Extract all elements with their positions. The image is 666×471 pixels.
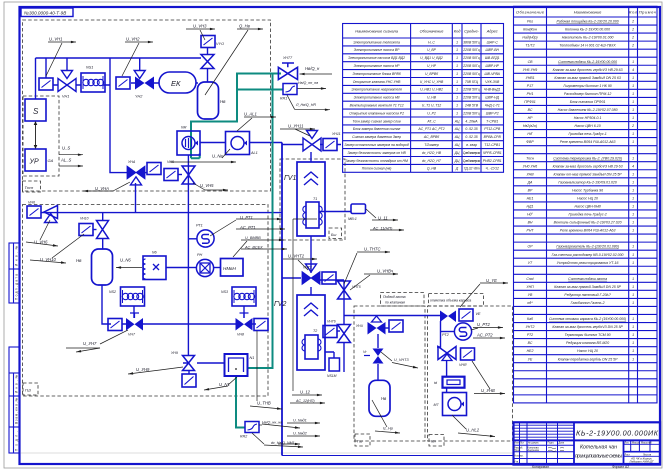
label U_RT2 bbox=[471, 328, 503, 331]
svg-text:НЕ1: НЕ1 bbox=[527, 197, 534, 201]
svg-text:1: 1 bbox=[456, 111, 458, 115]
svg-text:Насос ЦВН 6-10: Насос ЦВН 6-10 bbox=[574, 124, 600, 128]
svg-text:1: 1 bbox=[456, 88, 458, 92]
svg-text:1: 1 bbox=[632, 76, 634, 80]
label AC_RT1 bbox=[236, 228, 285, 230]
svg-text:1: 1 bbox=[632, 277, 634, 281]
svg-text:Котельная чан: Котельная чан bbox=[580, 445, 617, 451]
wire RN1 tap bbox=[188, 267, 196, 269]
svg-text:Газобаллон Газель-2: Газобаллон Газель-2 bbox=[571, 301, 605, 305]
svg-text:Насос НР504-0.1: Насос НР504-0.1 bbox=[574, 116, 602, 120]
svg-text:VYO: VYO bbox=[216, 42, 224, 46]
wire VHR-td-M7 stack bbox=[446, 360, 448, 393]
svg-text:Лист: Лист bbox=[625, 453, 631, 456]
svg-text:Насос ЦВН-6НВ: Насос ЦВН-6НВ bbox=[574, 205, 601, 209]
svg-text:ГШ: ГШ bbox=[25, 388, 31, 393]
svg-text:380В 50Гц: 380В 50Гц bbox=[463, 40, 479, 44]
svg-text:1: 1 bbox=[632, 197, 634, 201]
svg-text:1: 1 bbox=[632, 140, 634, 144]
svg-text:Q_НВ: Q_НВ bbox=[427, 167, 437, 171]
instrument VH1-pilot bbox=[39, 78, 53, 90]
svg-text:U_N1: U_N1 bbox=[219, 382, 230, 387]
svg-text:Подп.: Подп. bbox=[548, 442, 555, 445]
svg-text:1: 1 bbox=[632, 205, 634, 209]
wire YHA to instr bbox=[144, 172, 147, 174]
svg-text:Электропитание насоса НР: Электропитание насоса НР bbox=[354, 64, 401, 68]
svg-text:AC_РТ2: AC_РТ2 bbox=[476, 333, 493, 338]
svg-text:Тосн: Тосн bbox=[526, 156, 534, 160]
svg-text:СВ: СВ bbox=[528, 60, 534, 64]
unit RR2 bbox=[245, 422, 259, 433]
svg-text:МВ:1: МВ:1 bbox=[348, 217, 357, 221]
svg-text:РТ1: РТ1 bbox=[196, 224, 203, 228]
svg-text:1: 1 bbox=[632, 60, 634, 64]
svg-text:Клапан передатка гербоЬ DN 25: Клапан передатка гербоЬ DN 25 5Р bbox=[558, 357, 618, 361]
label U_NM1 bbox=[278, 443, 300, 445]
label N_H2Q bbox=[287, 95, 330, 110]
label AC_VSEH bbox=[241, 248, 287, 250]
label U_YH9 bbox=[128, 367, 183, 374]
svg-text:УН6 УН9: УН6 УН9 bbox=[523, 68, 537, 72]
svg-text:УНВ: УНВ bbox=[526, 172, 534, 176]
svg-text:U_VH1: U_VH1 bbox=[49, 37, 63, 42]
valve YH11 bbox=[303, 131, 321, 152]
teal pipe main H2 line bbox=[191, 74, 281, 159]
svg-text:Редуктор пятновый Г-20Ь?: Редуктор пятновый Г-20Ь? bbox=[564, 293, 610, 297]
svg-text:VH10: VH10 bbox=[80, 217, 89, 221]
svg-text:1: 1 bbox=[632, 188, 634, 192]
valve VH10 bbox=[79, 224, 93, 236]
svg-text:Сигнал замера давления Змер: Сигнал замера давления Змер bbox=[352, 135, 401, 139]
sensor RN1 bbox=[196, 259, 213, 276]
svg-text:Реле времени ВЛ64 РШ-А012-А63: Реле времени ВЛ64 РШ-А012-А63 bbox=[560, 229, 616, 233]
svg-text:Электропитание блока ВРВб: Электропитание блока ВРВб bbox=[353, 72, 401, 76]
label U_11 bbox=[366, 209, 398, 220]
teal pipe N1 to RR2 bbox=[236, 377, 245, 428]
label U_YHV bbox=[472, 361, 505, 394]
svg-text:U_VH5: U_VH5 bbox=[200, 183, 214, 188]
svg-text:VH1: VH1 bbox=[62, 95, 69, 99]
signal table bbox=[343, 24, 504, 173]
label U_YH11 bbox=[280, 129, 315, 136]
svg-text:ЕК: ЕК bbox=[171, 79, 181, 88]
svg-text:NS1: NS1 bbox=[86, 66, 93, 70]
svg-text:1: 1 bbox=[632, 357, 634, 361]
svg-text:АЦ: АЦ bbox=[454, 135, 460, 139]
svg-text:N6: N6 bbox=[152, 251, 157, 255]
svg-text:Андреева: Андреева bbox=[528, 449, 540, 452]
svg-text:принципиальные схемы: принципиальные схемы bbox=[575, 454, 622, 460]
dashed enclosure N2-supply bbox=[354, 306, 425, 441]
svg-text:U_ВМВВ: U_ВМВВ bbox=[245, 236, 261, 240]
svg-text:Электропитание насоса НВ: Электропитание насоса НВ bbox=[354, 96, 401, 100]
svg-text:РТ12-СРВ: РТ12-СРВ bbox=[484, 127, 501, 131]
svg-text:1: 1 bbox=[632, 100, 634, 104]
label U_VH3 bbox=[186, 29, 215, 40]
svg-text:AC_РТ1: AC_РТ1 bbox=[239, 225, 256, 230]
dashed enclosure vacuum frame bbox=[428, 306, 513, 441]
heater td bbox=[443, 377, 465, 388]
svg-text:Изм.: Изм. bbox=[514, 442, 520, 445]
svg-text:dc_Н2О_НТ: dc_Н2О_НТ bbox=[422, 159, 442, 163]
svg-text:220В 50Гц: 220В 50Гц bbox=[462, 48, 479, 52]
svg-text:U_VH10: U_VH10 bbox=[40, 257, 56, 262]
svg-text:U_Nв: U_Nв bbox=[212, 154, 223, 159]
equipment table bbox=[514, 6, 658, 403]
svg-text:ВН: ВН bbox=[528, 221, 533, 225]
svg-text:РН: РН bbox=[197, 253, 203, 257]
svg-text:1: 1 bbox=[632, 229, 634, 233]
svg-text:1: 1 bbox=[632, 333, 634, 337]
dashed tag GSh2 bbox=[355, 434, 370, 446]
svg-text:4: 4 bbox=[632, 164, 634, 168]
svg-text:Рег: Рег bbox=[527, 20, 533, 24]
svg-text:1: 1 bbox=[632, 325, 634, 329]
svg-text:ОР: ОР bbox=[527, 245, 533, 249]
wire NS3 drop bbox=[188, 306, 256, 324]
svg-text:№300.0000-40-Т-9В: №300.0000-40-Т-9В bbox=[24, 11, 66, 16]
wire VHT6 square link bbox=[337, 330, 340, 332]
svg-text:Т/2замер: Т/2замер bbox=[424, 143, 439, 147]
svg-text:7Д.32 ʶВт: 7Д.32 ʶВт bbox=[463, 167, 479, 171]
svg-text:AC_ВРВб: AC_ВРВб bbox=[423, 135, 439, 139]
label U_VHT2 bbox=[283, 259, 317, 270]
valve VH7 bbox=[108, 319, 122, 331]
svg-text:U_N6: U_N6 bbox=[120, 258, 131, 263]
svg-text:VH7: VH7 bbox=[128, 333, 136, 337]
instrument YHA-pilot bbox=[147, 163, 161, 175]
svg-text:220В 50Гц: 220В 50Гц bbox=[462, 64, 479, 68]
svg-text:Теплообмен 14 Н 001 02 4Ш-ТВХХ: Теплообмен 14 Н 001 02 4Ш-ТВХХ bbox=[559, 44, 616, 48]
svg-text:2: 2 bbox=[631, 36, 634, 40]
unit HM2N bbox=[221, 259, 244, 277]
wire YHU square link bbox=[385, 327, 389, 329]
svg-text:VH6: VH6 bbox=[28, 201, 35, 205]
wire RN1 to HM2N bbox=[213, 267, 221, 269]
valve VHT6 bbox=[338, 325, 351, 343]
svg-text:НД1: НД1 bbox=[527, 205, 534, 209]
svg-text:Термопары быточн ТСМ 90: Термопары быточн ТСМ 90 bbox=[565, 333, 611, 337]
svg-text:Рабочая площадка КЬ-2-19У20.20: Рабочая площадка КЬ-2-19У20.20.000 bbox=[556, 20, 618, 24]
svg-text:U_УНС U_УНВ: U_УНС U_УНВ bbox=[420, 80, 444, 84]
svg-text:1: 1 bbox=[456, 72, 458, 76]
svg-text:Утв.: Утв. bbox=[514, 461, 519, 464]
label H2Q_nn bbox=[298, 88, 327, 90]
pump NR bbox=[177, 131, 200, 155]
svg-text:Сна!: Сна! bbox=[526, 277, 533, 281]
wire YHA drop bbox=[135, 183, 137, 213]
label U_YH7 bbox=[66, 330, 128, 352]
svg-text:Редукция клапана ВЛ-М20: Редукция клапана ВЛ-М20 bbox=[566, 341, 609, 345]
svg-text:U_УН7: U_УН7 bbox=[83, 341, 97, 346]
svg-text:Подвод азота: Подвод азота bbox=[383, 295, 406, 299]
wire cross line to vacuum box bbox=[344, 315, 440, 317]
svg-text:1: 1 bbox=[632, 84, 634, 88]
svg-text:Гш: Гш bbox=[357, 439, 363, 444]
svg-text:Над(Ндр): Над(Ндр) bbox=[522, 36, 537, 40]
svg-text:Ндʹ: Ндʹ bbox=[527, 132, 532, 136]
svg-text:Нв2(в2о): Нв2(в2о) bbox=[523, 124, 537, 128]
svg-text:Клапан за-маг прямой ЗамдЬИ DN: Клапан за-маг прямой ЗамдЬИ DN 25 5Р bbox=[554, 285, 621, 289]
label Q_Hb bbox=[205, 29, 263, 95]
svg-text:ШВР-ВН: ШВР-ВН bbox=[485, 48, 499, 52]
svg-text:1: 1 bbox=[632, 156, 634, 160]
svg-text:Кол: Кол bbox=[629, 10, 638, 15]
instrument VHT2-pilot bbox=[322, 272, 336, 284]
valve VHT5 bbox=[338, 281, 351, 299]
svg-text:U_YE: U_YE bbox=[486, 278, 497, 283]
svg-text:Клапан за-маг дроссель гербоVЗ: Клапан за-маг дроссель гербоVЗ НВ 29 63 bbox=[553, 164, 623, 168]
wire YH9 drop to instr bbox=[188, 371, 190, 374]
svg-text:Вентиль сильфонный КЬ-2-19У03.: Вентиль сильфонный КЬ-2-19У03.27.020 bbox=[554, 221, 622, 225]
svg-text:ВР: ВР bbox=[528, 188, 533, 192]
sensor RT1 bbox=[197, 230, 214, 247]
svg-text:AC_11(НП): AC_11(НП) bbox=[372, 227, 393, 231]
svg-text:U_VHТ3: U_VHТ3 bbox=[394, 358, 409, 362]
svg-text:1: 1 bbox=[632, 317, 634, 321]
svg-text:Нв: Нв bbox=[220, 99, 226, 104]
svg-text:U_S: U_S bbox=[62, 146, 70, 151]
label U_VM2V bbox=[233, 240, 284, 257]
solenoid N6 bbox=[143, 256, 166, 280]
svg-text:U_ВД1 U_ВД2: U_ВД1 U_ВД2 bbox=[420, 56, 443, 60]
label U_VHVch bbox=[350, 274, 398, 290]
svg-text:РН1: РН1 bbox=[527, 92, 534, 96]
svg-text:ШВ-ЧРВА: ШВ-ЧРВА bbox=[484, 72, 500, 76]
sensor RT2 bbox=[454, 323, 471, 340]
svg-text:Кл: Кл bbox=[431, 439, 436, 444]
svg-text:1: 1 bbox=[632, 285, 634, 289]
svg-text:GA: GA bbox=[48, 158, 54, 163]
svg-text:70В 5ГЦ: 70В 5ГЦ bbox=[465, 80, 479, 84]
wire NS14 link bbox=[325, 352, 334, 358]
svg-text:Замер безопасности замеров он: Замер безопасности замеров он НВ bbox=[347, 151, 406, 155]
svg-text:Обозначение: Обозначение bbox=[516, 10, 545, 15]
label U_VHA bbox=[83, 182, 130, 191]
svg-text:1: 1 bbox=[632, 213, 634, 217]
svg-text:220В 50Гц: 220В 50Гц bbox=[462, 88, 479, 92]
svg-text:Наименование сигнала: Наименование сигнала bbox=[355, 29, 398, 34]
teal pipe long vertical bbox=[248, 74, 273, 369]
svg-text:Насос НЦ 20: Насос НЦ 20 bbox=[577, 197, 598, 201]
svg-text:AC_РТ1 AC_РТ2: AC_РТ1 AC_РТ2 bbox=[417, 127, 444, 131]
svg-text:ШВР-Р2: ШВР-Р2 bbox=[486, 111, 499, 115]
svg-text:1: 1 bbox=[632, 341, 634, 345]
label U_VH10 bbox=[30, 234, 84, 263]
svg-text:Насос Турбанка 96: Насос Турбанка 96 bbox=[572, 188, 603, 192]
svg-text:24В 5ГВ: 24В 5ГВ bbox=[464, 104, 479, 108]
svg-text:АТ_С: АТ_С bbox=[426, 119, 436, 123]
dashed enclosure V1 bbox=[280, 159, 345, 240]
svg-text:Насос давлением КЬ-2-19У02.07.: Насос давлением КЬ-2-19У02.07.080 bbox=[558, 108, 618, 112]
svg-text:Система подачи азота: Система подачи азота bbox=[568, 277, 607, 281]
label AC_11 bbox=[370, 229, 404, 231]
svg-text:ЧНВ-ВнД1: ЧНВ-ВнД1 bbox=[484, 88, 501, 92]
svg-text:АЦ: АЦ bbox=[454, 119, 460, 123]
unit RR1 bbox=[283, 84, 297, 95]
svg-text:AL_S: AL_S bbox=[60, 158, 71, 163]
svg-text:Электропитание нагревателя: Электропитание нагревателя bbox=[351, 88, 402, 92]
svg-text:Гриводка печь Градус-1: Гриводка печь Градус-1 bbox=[568, 132, 606, 136]
dashed tag Tosn bbox=[23, 181, 41, 192]
wire VH5 square link bbox=[178, 174, 182, 176]
instrument VE-pilot bbox=[459, 309, 473, 321]
svg-text:1: 1 bbox=[632, 92, 634, 96]
wire VYO stack bbox=[207, 47, 209, 82]
instrument VHR-pilot bbox=[461, 348, 475, 360]
svg-text:Ндʹʹ: Ндʹʹ bbox=[527, 213, 533, 217]
svg-text:AC_12(НП): AC_12(НП) bbox=[295, 399, 315, 403]
svg-text:1: 1 bbox=[632, 180, 634, 184]
svg-text:NS3: NS3 bbox=[221, 290, 228, 294]
svg-text:Взам.инв.№: Взам.инв.№ bbox=[15, 397, 19, 424]
wire drop to instr VH1 bbox=[45, 58, 47, 78]
svg-text:U_Nвд1: U_Nвд1 bbox=[293, 419, 307, 423]
svg-text:2: 2 bbox=[631, 44, 634, 48]
svg-text:УНА: УНА bbox=[128, 160, 136, 164]
svg-text:Обозначение: Обозначение bbox=[420, 29, 445, 34]
svg-text:Нв/Q_нн_нв: Нв/Q_нн_нв bbox=[298, 81, 318, 85]
svg-text:1: 1 bbox=[632, 245, 634, 249]
svg-text:U_11: U_11 bbox=[378, 216, 388, 221]
svg-text:Гигрометры быточн 1 НК 90: Гигрометры быточн 1 НК 90 bbox=[563, 84, 611, 88]
svg-text:Накопитель КЬ-2-19У00.01.000: Накопитель КЬ-2-19У00.01.000 bbox=[562, 36, 614, 40]
label U_VHT3 bbox=[381, 352, 418, 368]
svg-text:Т2: Т2 bbox=[313, 329, 317, 333]
wire drop x110 bbox=[110, 58, 128, 173]
wire drop to valve YH2 actuator bbox=[139, 58, 141, 71]
svg-text:4..20мА: 4..20мА bbox=[465, 119, 478, 123]
instrument VYO bbox=[201, 36, 215, 48]
svg-text:УВ: УВ bbox=[528, 293, 533, 297]
left margin stamp boxes bbox=[9, 243, 20, 453]
svg-text:Нв: Нв bbox=[76, 258, 82, 263]
svg-text:1: 1 bbox=[456, 80, 458, 84]
svg-text:Н.контр.: Н.контр. bbox=[514, 455, 524, 458]
svg-text:Блок питания ПРФ01: Блок питания ПРФ01 bbox=[570, 100, 606, 104]
wire main vertical x282 bbox=[281, 143, 283, 456]
svg-text:220В 50Гц: 220В 50Гц bbox=[462, 56, 479, 60]
svg-text:Газоанализатор КЬ-2-19У09.01.0: Газоанализатор КЬ-2-19У09.01.020 bbox=[558, 180, 617, 184]
svg-text:ВС: ВС bbox=[528, 341, 533, 345]
svg-text:Средне-: Средне- bbox=[464, 29, 480, 34]
solenoid NS3 bbox=[232, 287, 256, 306]
svg-text:Электропитание насосов ВД1 ВД2: Электропитание насосов ВД1 ВД2 bbox=[348, 56, 405, 60]
svg-text:РТ2: РТ2 bbox=[442, 333, 450, 337]
wire YH9 row to N1 bbox=[183, 362, 224, 364]
svg-text:УНU: УНU bbox=[356, 324, 364, 328]
solenoid NS1 bbox=[81, 73, 105, 92]
svg-text:AC_ВСЕХ: AC_ВСЕХ bbox=[244, 246, 263, 250]
svg-text:Потен сигнал (нв): Потен сигнал (нв) bbox=[362, 167, 392, 171]
svg-text:УН11: УН11 bbox=[332, 132, 341, 136]
svg-text:Клапан за-маг дроссель гербоVЗ: Клапан за-маг дроссель гербоVЗ DN 25 5Р bbox=[552, 325, 623, 329]
wire YH11 row bbox=[282, 144, 341, 146]
svg-text:Нв/Q_нн_нв: Нв/Q_нн_нв bbox=[262, 421, 282, 425]
valve YHA 3-way bbox=[127, 166, 145, 185]
svg-text:U_ВРВб: U_ВРВб bbox=[425, 72, 438, 76]
svg-text:УНТ2: УНТ2 bbox=[526, 325, 535, 329]
svg-text:ФВР: ФВР bbox=[526, 140, 534, 144]
svg-text:Система подачи КЬ-2-19У00.00.0: Система подачи КЬ-2-19У00.00.000 bbox=[558, 60, 617, 64]
link S-UP double arrow bbox=[35, 124, 37, 147]
label U_N6 bbox=[116, 267, 142, 269]
svg-text:Колонна КЬ-2-19У00.00.000: Колонна КЬ-2-19У00.00.000 bbox=[565, 28, 610, 32]
wire RT1 tap bbox=[188, 238, 197, 240]
svg-text:U_УН9: U_УН9 bbox=[136, 367, 150, 372]
svg-text:РТ2: РТ2 bbox=[527, 333, 533, 337]
wire B-bus bbox=[41, 212, 282, 214]
svg-text:dc_Нв/Q_NМ1: dc_Нв/Q_NМ1 bbox=[271, 441, 295, 445]
svg-text:Сред замером: Сред замером bbox=[463, 151, 481, 155]
svg-text:S: S bbox=[33, 107, 39, 116]
doc number label box bbox=[21, 8, 73, 17]
wire top bus bbox=[36, 57, 202, 59]
svg-text:2: 2 bbox=[631, 124, 634, 128]
svg-text:1: 1 bbox=[456, 96, 458, 100]
svg-text:U_НL2: U_НL2 bbox=[466, 428, 480, 433]
instrument YHU-pilot bbox=[389, 320, 403, 332]
svg-text:U_VH3: U_VH3 bbox=[193, 24, 207, 29]
svg-text:Система откачки каркаса КЬ-2 (: Система откачки каркаса КЬ-2 (19У00.00.0… bbox=[549, 317, 626, 321]
svg-text:Открытие клапана УНС УНВ: Открытие клапана УНС УНВ bbox=[353, 80, 401, 84]
svg-text:220В 50Гц: 220В 50Гц bbox=[462, 96, 479, 100]
label U_VH1 bbox=[46, 42, 76, 76]
svg-text:1: 1 bbox=[456, 64, 458, 68]
wire VH1 row bbox=[53, 84, 110, 86]
wire drop to S box bbox=[35, 58, 37, 99]
svg-text:Т1/Т2: Т1/Т2 bbox=[525, 44, 534, 48]
teal pipe to RR1 bbox=[237, 89, 283, 91]
svg-text:1: 1 bbox=[632, 132, 634, 136]
svg-text:dc_Н2О_НВ: dc_Н2О_НВ bbox=[422, 151, 442, 155]
label AC_12 bbox=[290, 402, 325, 404]
dashed tag KV bbox=[429, 435, 444, 447]
wire T1 to MV1 bbox=[319, 211, 351, 213]
valve YH2 bbox=[134, 71, 154, 90]
svg-text:Каб: Каб bbox=[527, 317, 534, 321]
svg-text:Пров.: Пров. bbox=[514, 449, 521, 452]
svg-text:220В 50Гц: 220В 50Гц bbox=[462, 72, 479, 76]
vessel H2 top bbox=[198, 82, 219, 119]
svg-text:ШАР-С: ШАР-С bbox=[487, 40, 499, 44]
wire vacuum box vertical bbox=[437, 321, 441, 347]
heat exchanger T2 bbox=[305, 335, 318, 359]
svg-text:1: 1 bbox=[632, 261, 634, 265]
svg-text:0..52.35: 0..52.35 bbox=[465, 135, 477, 139]
label U_12 bbox=[292, 219, 322, 395]
svg-text:Гриводка печь Градус-2: Гриводка печь Градус-2 bbox=[568, 213, 606, 217]
svg-text:1: 1 bbox=[456, 40, 458, 44]
solenoid NS14 bbox=[329, 358, 340, 371]
wire drop to valve VH1 actuator bbox=[66, 58, 68, 71]
heat exchanger T1 bbox=[306, 202, 319, 228]
svg-text:ВРВА-СРВ: ВРВА-СРВ bbox=[484, 135, 502, 139]
svg-text:U_ТНТС: U_ТНТС bbox=[364, 247, 381, 252]
svg-text:0..52.35: 0..52.35 bbox=[465, 127, 477, 131]
svg-text:по клапанам: по клапанам bbox=[385, 301, 406, 305]
svg-text:Лит.: Лит. bbox=[625, 442, 630, 445]
svg-text:U_VH2: U_VH2 bbox=[126, 37, 140, 42]
valve YH9 bbox=[183, 356, 195, 371]
svg-text:Электропитание телескопа: Электропитание телескопа bbox=[353, 40, 400, 44]
valve UNT7 bbox=[278, 63, 297, 80]
valve VH6 bbox=[27, 206, 41, 218]
svg-text:Блок замера давления сигнал: Блок замера давления сигнал bbox=[353, 127, 401, 131]
svg-text:1: 1 bbox=[456, 56, 458, 60]
svg-text:VHЯ: VHЯ bbox=[459, 363, 467, 367]
svg-text:Масштаб: Масштаб bbox=[641, 442, 652, 445]
